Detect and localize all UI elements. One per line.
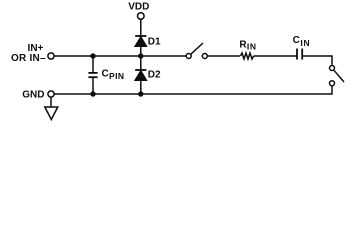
junction node: top rail / D1-D2 <box>138 53 143 58</box>
switch S2 lever <box>334 70 344 82</box>
wire: C_IN to top-right corner then down to switch <box>302 56 332 65</box>
switch S2 bottom contact <box>330 81 335 86</box>
svg-text:CPIN: CPIN <box>102 69 125 82</box>
diode D1 cathode bar <box>135 35 146 37</box>
diode D1 triangle (anode below, pointing up) <box>135 37 146 46</box>
diode D2 triangle (anode below, pointing up) <box>135 71 146 80</box>
wire: C_PIN top lead <box>92 56 94 73</box>
junction node: bottom rail / C_PIN <box>90 91 95 96</box>
ground symbol stub <box>50 97 52 107</box>
VDD terminal circle <box>138 13 145 20</box>
wire: bottom contact down and left along bottom rail <box>55 86 333 94</box>
wire: R_IN to C_IN left plate <box>254 55 297 57</box>
wire: C_PIN bottom lead <box>92 77 94 94</box>
junction node: bottom rail / D2 <box>138 91 143 96</box>
svg-text:RIN: RIN <box>239 39 256 51</box>
switch S1 lever <box>191 43 203 54</box>
resistor RIN zigzag <box>240 53 253 59</box>
switch S1 left contact <box>186 54 191 59</box>
svg-text:VDD: VDD <box>128 2 149 13</box>
wire: top rail from input terminal to left switch <box>55 55 186 57</box>
switch S1 right contact <box>202 54 207 59</box>
wire: top rail node down to D2 cathode <box>140 56 142 70</box>
switch S2 top contact <box>330 66 335 71</box>
junction node: top rail / C_PIN <box>90 53 95 58</box>
capacitor CPIN plates <box>88 72 97 74</box>
svg-text:D2: D2 <box>148 69 161 80</box>
svg-text:OR IN–: OR IN– <box>11 53 46 64</box>
input terminal circle IN <box>48 53 54 59</box>
svg-text:CIN: CIN <box>293 35 310 48</box>
diode D2 cathode bar <box>135 69 146 71</box>
terminal circle GND <box>48 91 54 97</box>
svg-text:GND: GND <box>22 90 44 101</box>
wire: D1 anode to top rail node <box>140 46 142 56</box>
ground symbol triangle <box>45 107 58 120</box>
capacitor CIN plates <box>296 49 298 60</box>
wire: VDD down to D1 cathode <box>140 19 142 36</box>
wire: right switch contact to R_IN <box>208 55 240 57</box>
svg-text:D1: D1 <box>148 37 161 48</box>
wire: D2 anode to bottom rail <box>140 80 142 94</box>
